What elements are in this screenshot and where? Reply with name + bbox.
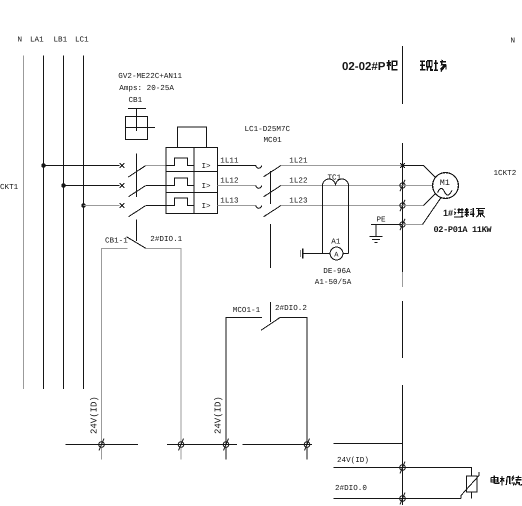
thermal element row2 [166, 178, 194, 185]
thermal element row3 [166, 198, 194, 205]
svg-text:24V(ID): 24V(ID) [337, 456, 369, 465]
wire tap phase A [44, 165, 120, 167]
wire pole1 to overload [146, 165, 166, 167]
svg-text:N: N [511, 38, 516, 46]
wire TC1 right leg [348, 186, 350, 254]
wire ammeter left [304, 253, 331, 255]
svg-text:MCO1-1: MCO1-1 [233, 306, 261, 315]
wire PE row [371, 224, 403, 226]
svg-text:M1: M1 [440, 178, 450, 188]
svg-text:PE: PE [377, 217, 387, 225]
breaker CB1 linkage [136, 154, 138, 242]
svg-text:2#DIO.1: 2#DIO.1 [150, 235, 182, 244]
terminal circle 24V at divider [400, 462, 406, 474]
svg-text:I>: I> [202, 203, 212, 211]
wire stub below terminal 4 [306, 447, 308, 459]
wire motor PE diagonal [423, 198, 442, 225]
svg-text:LC1-D25M7C: LC1-D25M7C [245, 125, 291, 134]
wire divider gray tail [402, 272, 404, 287]
thermistor body [467, 476, 478, 492]
wire bottom bar segment 1 [66, 444, 139, 446]
svg-text:2#DIO.2: 2#DIO.2 [275, 304, 307, 313]
svg-text:GV2-ME22C+AN11: GV2-ME22C+AN11 [118, 72, 182, 81]
wire divider bottom continuation [402, 444, 404, 506]
wire bottom bar segment 4 to divider [334, 443, 403, 445]
motor M1 circle [433, 173, 459, 199]
contactor linkage [270, 171, 272, 322]
ground symbol PE [370, 237, 383, 243]
wire stub below terminal 3 [225, 447, 227, 459]
wire CB1-1 right to 2#DIO.1 [146, 249, 181, 445]
wire thermistor bottom lead [471, 492, 473, 499]
wire bus LA1 vertical [43, 56, 45, 390]
wire overload out row2 [218, 185, 256, 187]
contactor fixed contact row2 [256, 186, 262, 189]
svg-text:Amps: 20-25A: Amps: 20-25A [119, 84, 174, 93]
svg-text:LB1: LB1 [54, 37, 68, 45]
overload relay box [166, 148, 218, 214]
wire bus N vertical [23, 56, 25, 390]
wire stub below terminal 2 [180, 447, 182, 459]
svg-text:LC1: LC1 [75, 36, 89, 45]
terminal circle row3 at divider [400, 200, 405, 211]
wire 24V feed [334, 468, 472, 477]
wire PE drop [375, 225, 377, 237]
wire overload out row1 [218, 165, 256, 167]
ground terminal at ammeter [302, 249, 304, 259]
svg-text:1L11: 1L11 [220, 158, 239, 166]
contactor fixed contact row1 [256, 166, 262, 169]
svg-text:1L13: 1L13 [220, 197, 239, 206]
wire divider dash 3 [402, 301, 404, 358]
label 电机绕组 [491, 476, 522, 486]
svg-text:CB1-1: CB1-1 [105, 236, 128, 245]
terminal circle CB1-1 wire [99, 439, 105, 451]
wire bottom bar segment 2 [167, 444, 237, 446]
wire divider dash 4 [402, 385, 404, 444]
svg-text:I>: I> [202, 163, 212, 171]
wire bus LC1 vertical [83, 56, 85, 390]
wire 1L22 [281, 185, 403, 187]
wire tap phase C [84, 205, 120, 207]
svg-text:02-02#P: 02-02#P [342, 61, 386, 73]
svg-text:1L23: 1L23 [289, 197, 308, 206]
junction dot LA1 tap [41, 163, 45, 167]
wire ammeter right [343, 253, 349, 255]
overload relay top extension box [178, 127, 207, 148]
svg-text:DE-96A: DE-96A [323, 267, 351, 276]
wire MCO1-1 right to 2#DIO.2 [280, 318, 307, 445]
svg-text:A1-50/5A: A1-50/5A [315, 278, 352, 287]
contactor blade row2 [264, 186, 282, 197]
svg-text:I>: I> [202, 183, 212, 191]
breaker CB1 operator box [126, 109, 156, 140]
svg-text:2#DIO.0: 2#DIO.0 [335, 484, 367, 493]
wire tap phase B [64, 185, 120, 187]
svg-text:24V(ID): 24V(ID) [214, 396, 224, 434]
svg-text:24V(ID): 24V(ID) [90, 396, 100, 434]
thermistor diagonal [461, 472, 479, 499]
svg-text:MC01: MC01 [264, 136, 283, 145]
wire TC1 left leg [322, 186, 324, 254]
breaker CB1 pole 1 blade [128, 166, 145, 178]
svg-text:N: N [18, 37, 23, 45]
svg-text:1L12: 1L12 [220, 177, 239, 186]
terminal x mark pole3 [120, 203, 125, 208]
terminal circle 2#DIO.2 wire [304, 439, 310, 451]
terminal x mark pole2 [120, 183, 125, 188]
terminal circle row2 at divider [400, 180, 405, 191]
ammeter A1 circle [330, 247, 343, 260]
motor sine wave [438, 188, 452, 195]
wire CB1-1 left [102, 249, 128, 445]
svg-text:CB1: CB1 [129, 96, 143, 105]
contactor blade row3 [264, 206, 282, 217]
node field label 现场 [420, 61, 433, 71]
label 1#进料泵 [443, 208, 485, 218]
wire motor lead 3 gray part [403, 205, 424, 207]
wire overload out row3 [218, 205, 256, 207]
terminal x mark pole1 [120, 163, 125, 168]
svg-text:1CKT1: 1CKT1 [0, 183, 19, 192]
wire bottom bar segment 3 [243, 444, 313, 446]
wire bus LB1 vertical [63, 56, 65, 390]
wire stub below terminal 1 [101, 447, 103, 459]
wire motor lead 3 diagonal [424, 194, 436, 206]
wire motor PE lead gray part [403, 224, 423, 226]
svg-text:LA1: LA1 [30, 37, 44, 45]
breaker CB1 pole 3 blade [128, 206, 145, 217]
thermal element row1 [166, 158, 194, 165]
terminal x mark row1 at divider [400, 163, 405, 168]
wire divider dash 1 [402, 46, 404, 104]
terminal circle PE row at divider [400, 219, 405, 230]
wire motor lead 1 [403, 166, 436, 178]
svg-text:1#: 1# [443, 208, 453, 218]
junction dot LC1 tap [81, 203, 85, 207]
breaker CB1 pole 2 blade [128, 186, 145, 197]
svg-text:02-P01A 11KW: 02-P01A 11KW [434, 225, 493, 235]
svg-text:TC1: TC1 [328, 173, 342, 182]
wire 1L23 [281, 205, 403, 207]
contactor blade row1 [264, 166, 282, 177]
svg-text:A1: A1 [331, 239, 341, 247]
CT TC1 primary humps [323, 179, 349, 186]
svg-text:1L21: 1L21 [289, 157, 308, 166]
terminal circle 2#DIO.1 wire [178, 439, 184, 451]
wire 2#DIO.0 return [334, 498, 462, 500]
junction dot LB1 tap [61, 183, 65, 187]
terminal circle MCO1-1 wire [223, 439, 229, 451]
wire 1L21 [281, 165, 403, 167]
contactor fixed contact row3 [256, 206, 262, 209]
wire MCO1-1 left [226, 318, 262, 445]
terminal circle 2#DIO.0 at divider [400, 493, 406, 505]
contact CB1-1 blade [127, 237, 146, 249]
contact MCO1-1 blade [261, 318, 280, 331]
svg-text:1L22: 1L22 [289, 177, 308, 186]
wire motor lead 2 [403, 185, 433, 187]
wire pole3 to overload [146, 205, 166, 207]
wire divider dash 2 [402, 143, 404, 272]
wire pole2 to overload [146, 185, 166, 187]
svg-text:1CKT2: 1CKT2 [494, 169, 517, 178]
